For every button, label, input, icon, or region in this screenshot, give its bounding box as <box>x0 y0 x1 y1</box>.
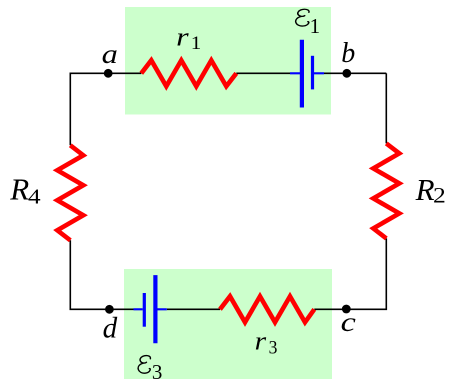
svg-text:R: R <box>9 171 29 206</box>
svg-text:b: b <box>341 38 355 69</box>
svg-text:R: R <box>415 172 435 207</box>
svg-text:4: 4 <box>28 184 41 208</box>
svg-text:3: 3 <box>269 338 278 359</box>
svg-text:r: r <box>176 22 190 51</box>
svg-text:a: a <box>102 39 118 69</box>
svg-text:r: r <box>255 326 267 355</box>
svg-text:1: 1 <box>191 33 202 54</box>
svg-text:d: d <box>103 312 119 345</box>
svg-text:3: 3 <box>152 360 163 384</box>
svg-text:1: 1 <box>310 14 321 38</box>
svg-text:c: c <box>341 307 356 337</box>
svg-text:2: 2 <box>433 183 446 208</box>
